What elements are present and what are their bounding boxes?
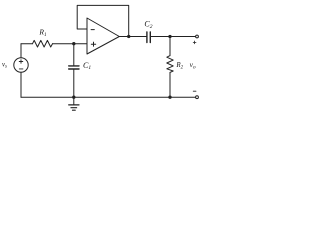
op-amp U1 [87,18,119,54]
node B junction [127,35,130,38]
wire feedback loop [77,5,129,36]
terminal minus [196,96,199,99]
label plus sign [193,41,196,44]
node E junction [168,96,171,99]
node A junction [72,42,75,45]
wire source top lead [20,44,22,58]
capacitor C1 [73,44,75,66]
terminal plus [196,35,199,38]
wire bottom rail [21,96,196,98]
capacitor C2 [147,32,150,43]
ground [73,97,75,104]
node C junction [168,35,171,38]
wire op-amp output [119,36,147,38]
label minus sign [193,90,196,92]
voltage source VS [14,58,28,72]
wire source to R1 [21,43,33,45]
resistor R2 [169,37,171,56]
resistor R1 [33,40,53,47]
wire bottom source lead [20,72,22,97]
wire R1 to op-amp + input [53,43,88,45]
wire C2 to output terminal [150,36,195,38]
node D junction [72,96,75,99]
